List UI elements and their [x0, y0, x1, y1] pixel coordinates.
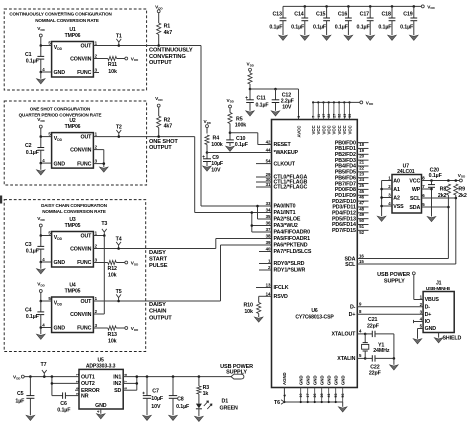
- node continuously converting output label: [149, 48, 193, 66]
- svg-text:VCC: VCC: [347, 125, 352, 134]
- op-amp U4 (TMP05 sensor): [41, 282, 99, 332]
- svg-text:C15: C15: [316, 11, 326, 17]
- svg-text:50: 50: [359, 218, 364, 223]
- op-amp U1 (TMP06 sensor): [41, 27, 99, 77]
- wire AVCC node: [250, 88, 299, 120]
- wire J1 IO stub: [414, 320, 424, 323]
- svg-text:2: 2: [75, 381, 79, 383]
- pin GND 53: [334, 375, 339, 402]
- svg-text:100k: 100k: [211, 142, 222, 148]
- svg-text:D-: D-: [425, 305, 431, 311]
- capacitor C2: [25, 137, 44, 170]
- svg-text:D1: D1: [222, 399, 229, 405]
- svg-text:PA4/FIFOADR0: PA4/FIFOADR0: [274, 230, 311, 236]
- wire USB power rail: [123, 375, 231, 390]
- dashed box: one shot configuration: [4, 101, 146, 185]
- pin GND 17: [306, 375, 311, 402]
- svg-text:TMP05: TMP05: [65, 288, 81, 294]
- pin U5 5 SD: [114, 387, 128, 394]
- pin VCC 32: [337, 102, 342, 134]
- capacitor C1: [25, 46, 44, 79]
- svg-text:AGND: AGND: [282, 372, 287, 385]
- svg-text:0.1µF: 0.1µF: [26, 150, 40, 156]
- pin J1 2 D-: [420, 302, 431, 311]
- svg-text:SCL: SCL: [345, 262, 356, 268]
- svg-text:GND: GND: [54, 260, 66, 266]
- wire daisy chain output: [99, 245, 272, 301]
- svg-text:C1: C1: [25, 52, 32, 58]
- eeprom U7 24LC01: [392, 163, 422, 213]
- svg-text:6: 6: [283, 395, 287, 397]
- svg-text:GND: GND: [54, 326, 66, 332]
- svg-text:16: 16: [359, 253, 364, 258]
- pin 51 PD6/FD14: [332, 222, 368, 229]
- ground under C2: [37, 170, 46, 175]
- ground crystal: [390, 365, 399, 370]
- pin 25 PB7/FD7: [335, 181, 369, 188]
- svg-text:IFCLK: IFCLK: [274, 285, 289, 291]
- svg-text:RESET: RESET: [274, 142, 292, 148]
- ground under C4: [37, 334, 46, 339]
- pin U5 3 NR: [75, 393, 88, 400]
- ground U2 FUNC: [100, 167, 109, 172]
- svg-text:DD: DD: [57, 47, 62, 51]
- ground under D1: [195, 416, 204, 421]
- ground under C1: [37, 79, 46, 84]
- svg-text:0.1µF: 0.1µF: [26, 249, 40, 255]
- pin J1 4 IO: [420, 317, 430, 326]
- svg-text:39: 39: [266, 240, 271, 245]
- op-amp U3 (TMP05 sensor): [41, 217, 99, 267]
- pin 47 PD2/FD10: [332, 199, 368, 206]
- svg-text:GND: GND: [299, 375, 304, 385]
- svg-text:43: 43: [343, 114, 347, 118]
- ground under C9: [203, 166, 212, 171]
- svg-text:36: 36: [266, 221, 271, 226]
- pin GND 10: [299, 375, 304, 402]
- svg-text:CONV/IN: CONV/IN: [70, 148, 92, 154]
- svg-text:46: 46: [359, 195, 364, 200]
- ground under C13: [279, 35, 288, 40]
- svg-text:DD: DD: [41, 119, 45, 123]
- svg-text:OUT1: OUT1: [81, 374, 95, 380]
- wire WAKEUP net: [207, 152, 272, 154]
- svg-text:A0: A0: [393, 178, 400, 184]
- pin J1 5 GND: [420, 324, 437, 333]
- svg-text:28: 28: [320, 394, 324, 398]
- svg-text:0.1µF: 0.1µF: [235, 142, 249, 148]
- svg-text:OUT2: OUT2: [81, 381, 95, 387]
- svg-text:DD: DD: [134, 328, 138, 332]
- svg-text:GND: GND: [334, 375, 339, 385]
- svg-text:VSS: VSS: [393, 204, 404, 210]
- svg-text:DD: DD: [461, 175, 465, 179]
- ground under C8: [169, 415, 178, 420]
- svg-text:18: 18: [359, 142, 364, 147]
- svg-text:OUT: OUT: [80, 233, 92, 239]
- svg-text:RDY0/*SLRD: RDY0/*SLRD: [274, 261, 305, 267]
- svg-text:10V: 10V: [211, 168, 221, 174]
- svg-text:GND: GND: [327, 375, 332, 385]
- svg-text:22pF: 22pF: [367, 323, 380, 329]
- pin 1 RDY0/*SLRD: [259, 259, 305, 268]
- pin 35 PA2/*SLOE: [266, 214, 301, 223]
- test point T7: [41, 362, 47, 377]
- svg-text:10µF: 10µF: [151, 396, 164, 402]
- svg-text:C18: C18: [381, 11, 391, 17]
- capacitor C18: [378, 6, 395, 35]
- svg-text:100k: 100k: [235, 123, 246, 129]
- svg-text:CY7C68013-CSP: CY7C68013-CSP: [295, 314, 334, 320]
- svg-text:FUNC: FUNC: [77, 260, 92, 266]
- test point T4: [116, 237, 122, 250]
- svg-text:1: 1: [75, 374, 79, 376]
- ground under C20: [427, 217, 436, 222]
- svg-text:38: 38: [266, 234, 271, 239]
- resistor R13: [93, 326, 138, 344]
- svg-text:VBUS: VBUS: [425, 297, 440, 303]
- pin GND 26: [313, 375, 318, 402]
- svg-text:21: 21: [359, 160, 364, 165]
- svg-text:FUNC: FUNC: [77, 326, 92, 332]
- ground under C19: [410, 35, 419, 40]
- svg-text:33: 33: [266, 201, 271, 206]
- resistor R9: [422, 184, 467, 199]
- svg-text:6: 6: [75, 387, 79, 389]
- wire PA0-PA2 tie: [256, 205, 271, 219]
- pin 44 *WAKEUP: [207, 148, 299, 157]
- node daisy start pulse label: [149, 250, 168, 269]
- svg-text:1k: 1k: [203, 391, 209, 397]
- pin 14 RSVD: [266, 291, 288, 300]
- pin U5 4 GND: [97, 409, 101, 414]
- pin 8 D+ net: [349, 309, 423, 318]
- svg-text:GND: GND: [95, 403, 107, 409]
- svg-text:20: 20: [359, 154, 364, 159]
- capacitor C17: [357, 6, 374, 35]
- svg-text:PD7/FD15: PD7/FD15: [332, 228, 356, 234]
- pin 46 PD1/FD9: [335, 193, 369, 200]
- svg-text:DAISY CHAIN CONFIGURATION: DAISY CHAIN CONFIGURATION: [41, 203, 107, 208]
- svg-text:42: 42: [266, 140, 271, 145]
- svg-text:3: 3: [75, 393, 79, 395]
- pin 29 CTL0/*FLAGA: [256, 172, 307, 181]
- svg-text:GND: GND: [54, 161, 66, 167]
- wire U2 CONV/IN to FUNC: [93, 150, 105, 167]
- svg-text:DD: DD: [16, 376, 20, 380]
- microcontroller U6 CY7C68013-CSP: [272, 120, 358, 388]
- wire RESET net: [230, 133, 272, 145]
- pin U7 8 VCC: [409, 176, 425, 185]
- svg-text:R10: R10: [243, 303, 253, 309]
- ground under C3: [37, 269, 46, 274]
- pin 34 PA1/INT1: [266, 208, 296, 217]
- pin U7 5 SDA: [409, 202, 425, 211]
- svg-text:FUNC: FUNC: [77, 70, 92, 76]
- ground under C14: [301, 35, 310, 40]
- svg-text:10V: 10V: [151, 404, 161, 410]
- ferrite/resistor feed to AVCC: [246, 61, 253, 90]
- capacitor C11: [245, 89, 269, 111]
- svg-text:53: 53: [334, 394, 338, 398]
- pin 9 D- net: [350, 302, 423, 311]
- svg-text:C7: C7: [152, 388, 159, 394]
- pin U5 6 ERROR: [75, 387, 100, 394]
- capacitor C15: [313, 6, 330, 35]
- svg-text:GND: GND: [320, 375, 325, 385]
- ground U6: [338, 407, 347, 412]
- capacitor C12: [272, 89, 295, 111]
- svg-text:NOMINAL CONVERSION RATE: NOMINAL CONVERSION RATE: [42, 209, 106, 214]
- pin VCC 7: [311, 102, 316, 134]
- test point T3: [93, 221, 107, 237]
- svg-text:PA3/*WU2: PA3/*WU2: [274, 223, 298, 229]
- capacitor C10: [226, 133, 249, 149]
- svg-text:0.1µF: 0.1µF: [429, 173, 443, 179]
- pin 54 CLKOUT: [256, 159, 296, 168]
- svg-text:XTALIN: XTALIN: [337, 356, 355, 362]
- pin 23 PB5/FD5: [335, 170, 369, 177]
- svg-text:49: 49: [359, 212, 364, 217]
- wire PA1-PA3-PA4 tie: [251, 211, 272, 232]
- svg-text:TMP06: TMP06: [65, 124, 81, 130]
- wire U3 OUT to U4 CONV/IN: [93, 236, 104, 315]
- svg-text:22: 22: [359, 165, 364, 170]
- svg-text:10V: 10V: [282, 105, 292, 111]
- svg-text:22: 22: [327, 114, 331, 118]
- svg-text:R2: R2: [164, 117, 171, 123]
- svg-text:DD: DD: [250, 63, 254, 67]
- connector J1 USB-MINI-B: [423, 280, 454, 332]
- svg-text:DD: DD: [134, 58, 138, 62]
- svg-text:C13: C13: [272, 11, 282, 17]
- node VDD U2: [37, 117, 44, 138]
- pin 50 PD5/FD13: [332, 216, 368, 223]
- capacitor C5: [15, 377, 34, 416]
- svg-text:0.1µF: 0.1µF: [378, 25, 392, 31]
- svg-text:10k: 10k: [108, 272, 117, 278]
- pin 2 RDY1/*SLWR: [259, 265, 306, 274]
- pin VCC 11: [316, 102, 321, 134]
- svg-text:GND: GND: [341, 375, 346, 385]
- resistor R2: [155, 96, 172, 138]
- svg-text:C4: C4: [25, 307, 32, 313]
- node VDD U1: [37, 26, 44, 47]
- svg-text:OUTPUT: OUTPUT: [149, 60, 172, 66]
- svg-text:48: 48: [359, 206, 364, 211]
- svg-text:TMP05: TMP05: [65, 223, 81, 229]
- test point T6: [274, 400, 284, 407]
- wire AGND/GND bus: [283, 401, 342, 407]
- pin U7 6 SCL: [410, 193, 425, 202]
- svg-text:DAISY: DAISY: [149, 302, 166, 308]
- svg-text:25: 25: [359, 183, 364, 188]
- svg-text:0.1µF: 0.1µF: [26, 59, 40, 65]
- svg-text:54: 54: [266, 159, 271, 164]
- svg-text:1µF: 1µF: [15, 398, 25, 404]
- svg-text:11: 11: [317, 114, 321, 118]
- svg-text:37: 37: [266, 227, 271, 232]
- dashed box: continuously converting configuration: [4, 9, 146, 90]
- ground U5: [97, 414, 106, 419]
- svg-text:VCC: VCC: [409, 178, 420, 184]
- svg-text:PA2/*SLOE: PA2/*SLOE: [274, 217, 301, 223]
- svg-text:FUNC: FUNC: [77, 161, 92, 167]
- svg-text:GND: GND: [306, 375, 311, 385]
- svg-text:14: 14: [266, 291, 271, 296]
- svg-text:C3: C3: [25, 242, 32, 248]
- pin 13 IFCLK: [256, 283, 289, 292]
- svg-text:OUT: OUT: [80, 43, 92, 49]
- capacitor C22: [365, 355, 395, 376]
- svg-text:T6: T6: [274, 400, 280, 406]
- svg-text:GND: GND: [425, 326, 437, 332]
- svg-text:DD: DD: [57, 237, 62, 241]
- svg-text:24MHz: 24MHz: [373, 348, 390, 354]
- resistor R10: [243, 296, 271, 317]
- svg-text:7: 7: [312, 116, 316, 118]
- svg-text:GND: GND: [54, 70, 66, 76]
- svg-text:XTALOUT: XTALOUT: [332, 332, 357, 338]
- regulator U5 ADP3303-3.3: [79, 357, 123, 409]
- svg-text:55: 55: [348, 114, 352, 118]
- svg-text:PA7/*FLD/SLCS: PA7/*FLD/SLCS: [274, 249, 312, 255]
- capacitor C20: [422, 167, 443, 216]
- wire FUNC stub U1: [93, 72, 99, 74]
- svg-text:C14: C14: [294, 11, 304, 17]
- svg-text:C11: C11: [257, 95, 266, 101]
- svg-text:23: 23: [359, 171, 364, 176]
- pin VCC 55: [347, 102, 352, 134]
- wire one shot output: [99, 137, 272, 213]
- test point T1: [116, 34, 122, 47]
- resistor R1: [155, 5, 172, 47]
- pin 36 PA3/*WU2: [266, 221, 298, 230]
- svg-text:T3: T3: [101, 221, 107, 227]
- wire U5 ERROR stub: [75, 389, 79, 391]
- svg-text:0.1µF: 0.1µF: [26, 314, 40, 320]
- svg-text:PA1/INT1: PA1/INT1: [274, 210, 296, 216]
- svg-text:NR: NR: [81, 394, 89, 400]
- pin VCC 43: [342, 102, 347, 134]
- svg-text:PA0/INT0: PA0/INT0: [274, 204, 296, 210]
- svg-text:0.1µF: 0.1µF: [400, 25, 414, 31]
- ground U7 address: [377, 216, 386, 221]
- svg-text:DD: DD: [158, 98, 162, 102]
- svg-text:45: 45: [359, 189, 364, 194]
- pin U5 7 IN2: [113, 381, 127, 388]
- wire VCC rail: [312, 100, 373, 106]
- svg-text:0.1µF: 0.1µF: [313, 25, 327, 31]
- capacitor C19: [400, 6, 417, 35]
- svg-text:DD: DD: [134, 262, 138, 266]
- ground under C16: [344, 35, 353, 40]
- svg-text:GND: GND: [313, 375, 318, 385]
- LED D1 green: [196, 399, 238, 417]
- svg-text:CTL2/*FLAGC: CTL2/*FLAGC: [274, 185, 308, 191]
- pin U5 1 OUT1: [75, 374, 95, 381]
- svg-text:0.1µF: 0.1µF: [176, 404, 190, 410]
- svg-text:ONE SHOT CONFIGURATION: ONE SHOT CONFIGURATION: [30, 106, 90, 111]
- pin J1 3 D+: [420, 309, 432, 318]
- svg-text:CONVERTING: CONVERTING: [149, 54, 186, 60]
- node VDD U4: [37, 282, 44, 303]
- svg-text:35: 35: [266, 214, 271, 219]
- pin 52 PD7/FD15: [332, 228, 368, 235]
- svg-text:10k: 10k: [108, 338, 117, 344]
- ground under C17: [366, 35, 375, 40]
- ground under C5: [26, 415, 35, 420]
- test point T2: [116, 125, 122, 138]
- border artifact: [0, 196, 2, 204]
- svg-text:C17: C17: [360, 11, 370, 17]
- pin U5 8 IN1: [113, 374, 127, 381]
- svg-text:START: START: [149, 257, 168, 263]
- svg-text:QUARTER PERIOD CONVERSION RATE: QUARTER PERIOD CONVERSION RATE: [19, 113, 102, 118]
- resistor R12: [93, 260, 138, 278]
- svg-text:C2: C2: [25, 143, 32, 149]
- pin GND 56: [341, 375, 346, 402]
- pin U7 1 A0: [382, 176, 400, 185]
- pin 21 PB3/FD3: [335, 158, 369, 165]
- svg-text:GREEN: GREEN: [220, 405, 239, 411]
- svg-text:CONTINUOUSLY: CONTINUOUSLY: [149, 48, 193, 54]
- wire OUT2 tie: [51, 377, 79, 396]
- svg-text:4: 4: [97, 411, 101, 413]
- ground under C7: [143, 415, 152, 420]
- svg-text:ADP3303-3.3: ADP3303-3.3: [86, 363, 116, 369]
- svg-text:CONV/IN: CONV/IN: [70, 56, 92, 62]
- pin GND 28: [320, 375, 325, 402]
- svg-text:A1: A1: [393, 187, 400, 193]
- resistor R5: [226, 98, 246, 134]
- wire U7 VCC rail: [422, 173, 466, 182]
- svg-text:RDY1/*SLWR: RDY1/*SLWR: [274, 268, 306, 274]
- svg-text:4k7: 4k7: [164, 30, 173, 36]
- pin 5 XTALIN: [337, 353, 365, 362]
- capacitor C8: [169, 377, 190, 416]
- svg-text:C5: C5: [17, 391, 24, 397]
- svg-text:DD: DD: [57, 303, 62, 307]
- pin AVCC 3: [296, 89, 301, 138]
- pin U7 3 A2: [382, 193, 400, 202]
- capacitor C6: [52, 392, 79, 413]
- pin 20 PB2/FD2: [335, 152, 369, 159]
- pin 30 CTL1/*FLAGB: [256, 177, 307, 186]
- svg-text:44: 44: [266, 148, 271, 153]
- pin 37 PA4/FIFOADR0: [266, 227, 310, 236]
- svg-text:D+: D+: [349, 312, 356, 318]
- svg-text:OUTPUT: OUTPUT: [149, 145, 172, 151]
- svg-text:D+: D+: [425, 312, 432, 318]
- pin VCC 27: [332, 102, 337, 134]
- svg-text:13: 13: [266, 283, 271, 288]
- svg-text:24: 24: [359, 177, 364, 182]
- svg-text:R13: R13: [108, 332, 118, 338]
- svg-text:10k: 10k: [108, 69, 117, 75]
- svg-text:IO: IO: [425, 319, 430, 325]
- svg-text:DD: DD: [230, 100, 234, 104]
- svg-text:TMP06: TMP06: [65, 33, 81, 39]
- svg-text:USB-MINI-B: USB-MINI-B: [426, 286, 451, 292]
- svg-text:41: 41: [327, 394, 331, 398]
- svg-text:R8: R8: [440, 187, 447, 193]
- pin 22 PB4/FD4: [335, 164, 369, 171]
- svg-text:T7: T7: [41, 362, 47, 368]
- svg-text:R4: R4: [213, 136, 220, 142]
- capacitor C13: [269, 6, 286, 35]
- svg-text:24LC01: 24LC01: [397, 169, 415, 175]
